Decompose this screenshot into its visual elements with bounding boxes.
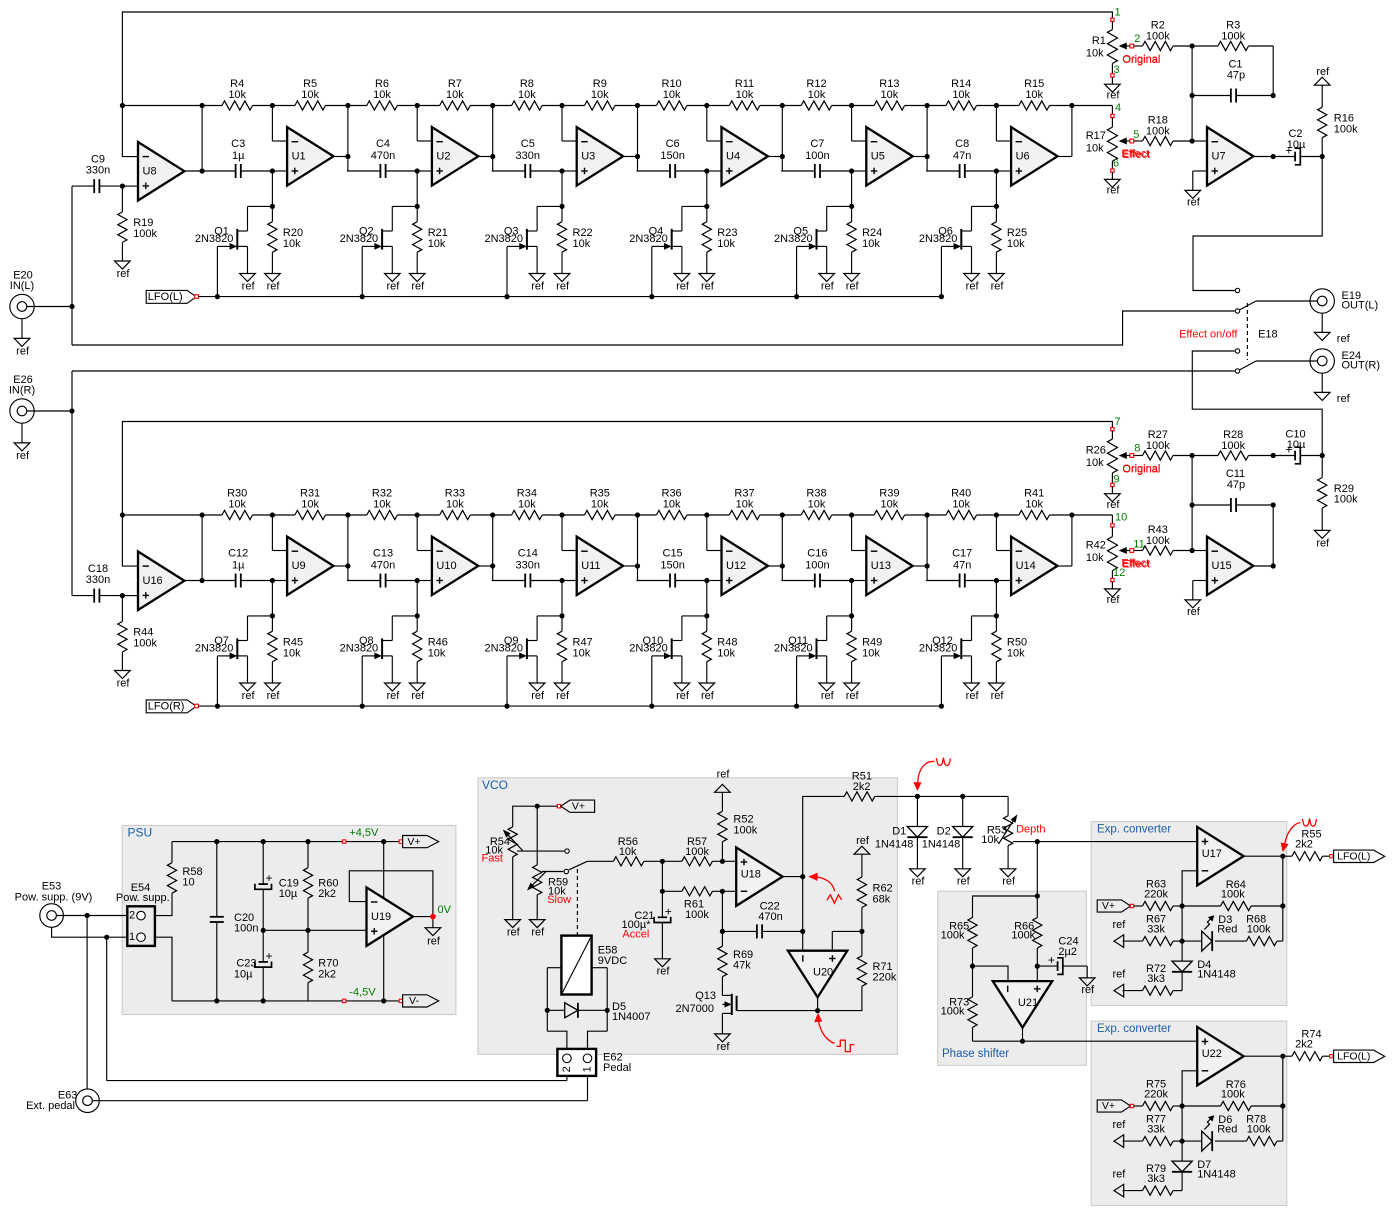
capacitor C15 150n xyxy=(637,580,671,582)
capacitor C5 330n xyxy=(492,170,526,172)
ground ref left xyxy=(1114,935,1124,948)
capacitor C4 470n xyxy=(347,170,381,172)
svg-text:100k: 100k xyxy=(1146,535,1170,547)
ground ref xyxy=(554,683,570,691)
wire xyxy=(592,967,608,969)
ground ref xyxy=(715,1034,731,1042)
svg-text:150n: 150n xyxy=(660,150,684,162)
svg-text:ref: ref xyxy=(846,280,860,292)
svg-text:2N3820: 2N3820 xyxy=(484,642,523,654)
switch Fast/Slow contact 1 xyxy=(565,849,569,853)
wire xyxy=(57,915,88,917)
resistor R31 10k xyxy=(272,514,295,516)
svg-text:10k: 10k xyxy=(428,647,446,659)
node xyxy=(660,859,665,864)
ground ref left xyxy=(1114,984,1124,997)
wire xyxy=(107,1080,567,1082)
capacitor C22 470n xyxy=(722,930,757,932)
svg-text:2µ2: 2µ2 xyxy=(1058,946,1077,958)
svg-text:100k: 100k xyxy=(1221,889,1245,901)
resistor R57 100k xyxy=(662,860,682,862)
section box Exp. converter 1 xyxy=(1091,822,1287,1006)
svg-text:1N4148: 1N4148 xyxy=(1197,1168,1236,1180)
svg-text:330n: 330n xyxy=(86,164,110,176)
diode D5 1N4007 xyxy=(547,1009,564,1011)
svg-text:2: 2 xyxy=(561,1066,573,1072)
diode D2 1N4148 xyxy=(962,796,964,826)
wire xyxy=(27,306,72,308)
wire xyxy=(155,937,172,1001)
svg-text:470n: 470n xyxy=(758,911,782,923)
svg-text:ref: ref xyxy=(1112,1169,1126,1181)
svg-text:+4,5V: +4,5V xyxy=(349,827,379,839)
svg-text:PSU: PSU xyxy=(128,825,153,839)
pin -4,5V xyxy=(342,999,345,1002)
svg-text:47n: 47n xyxy=(953,150,971,162)
svg-text:10k: 10k xyxy=(952,498,970,510)
resistor R8 10k xyxy=(492,105,512,107)
svg-text:2N3820: 2N3820 xyxy=(195,642,234,654)
svg-text:150n: 150n xyxy=(660,559,684,571)
svg-text:D2: D2 xyxy=(937,826,951,838)
svg-text:100k: 100k xyxy=(1146,125,1170,137)
node stage out xyxy=(635,563,640,568)
capacitor C7 100n xyxy=(781,170,815,172)
svg-text:R1: R1 xyxy=(1092,35,1106,47)
wire U17 minus xyxy=(1182,871,1197,906)
node Q xyxy=(994,204,999,209)
capacitor C23 10µ xyxy=(262,930,264,962)
op-amp U20 xyxy=(788,951,847,998)
node U20 out xyxy=(815,1008,820,1013)
wire U21 plus xyxy=(1036,966,1038,981)
resistor R2 100k xyxy=(1134,45,1143,47)
resistor R45 10k xyxy=(271,616,273,631)
svg-text:U3: U3 xyxy=(581,151,595,163)
wire xyxy=(996,580,1011,582)
svg-text:U21: U21 xyxy=(1018,997,1038,1009)
resistor R35 10k xyxy=(562,514,585,516)
node gate xyxy=(794,704,799,709)
svg-text:R26: R26 xyxy=(1086,445,1106,457)
potentiometer R26 10k Original xyxy=(1111,428,1114,431)
wire U20 minus xyxy=(802,931,804,950)
wire xyxy=(93,1100,588,1102)
ground ref left xyxy=(1114,1184,1124,1197)
svg-text:LFO(L): LFO(L) xyxy=(148,291,183,303)
net flag LFO(L) out 2 xyxy=(1330,1055,1333,1058)
resistor R12 10k xyxy=(781,105,801,107)
svg-text:10k: 10k xyxy=(736,498,754,510)
node Q xyxy=(704,613,709,618)
svg-text:6: 6 xyxy=(1113,157,1119,169)
svg-text:C11: C11 xyxy=(1226,468,1245,480)
resistor R69 47k xyxy=(718,946,727,977)
svg-text:U20: U20 xyxy=(813,967,833,979)
wire -4.5 rail xyxy=(172,1000,401,1002)
ground ref xyxy=(844,683,860,691)
svg-text:R42: R42 xyxy=(1086,540,1106,552)
wire xyxy=(107,936,128,938)
wire xyxy=(587,860,613,862)
node out xyxy=(1320,453,1325,458)
node U18 out xyxy=(800,874,805,879)
svg-text:U12: U12 xyxy=(726,560,746,572)
capacitor C21 100µ* xyxy=(661,891,663,917)
resistor R50 10k xyxy=(995,616,997,631)
svg-text:3k3: 3k3 xyxy=(1147,1173,1165,1185)
node xyxy=(1180,1103,1185,1108)
svg-text:Pow. supp. (9V): Pow. supp. (9V) xyxy=(15,891,93,903)
wire xyxy=(1256,300,1318,302)
wire xyxy=(417,580,432,582)
ground ref xyxy=(1314,530,1330,538)
svg-text:U15: U15 xyxy=(1212,560,1232,572)
wire xyxy=(661,861,663,891)
svg-text:3: 3 xyxy=(1114,64,1120,76)
capacitor C3 1µ xyxy=(202,170,236,172)
section box Exp. converter 2 xyxy=(1091,1021,1287,1206)
diode D7 1N4148 xyxy=(1181,1141,1183,1161)
svg-text:R17: R17 xyxy=(1086,130,1106,142)
resistor R23 10k xyxy=(706,206,708,221)
svg-text:ref: ref xyxy=(846,690,860,702)
svg-text:3k3: 3k3 xyxy=(1147,973,1165,985)
diode D4 1N4148 xyxy=(1181,941,1183,961)
wire xyxy=(851,515,853,551)
svg-text:2N3820: 2N3820 xyxy=(774,642,813,654)
svg-text:10µ: 10µ xyxy=(234,968,253,980)
op-amp U21 xyxy=(993,981,1052,1028)
svg-text:C12: C12 xyxy=(228,548,248,560)
svg-text:Ext. pedal: Ext. pedal xyxy=(26,1100,75,1112)
wire xyxy=(995,515,997,551)
op-amp U22 xyxy=(1197,1027,1243,1086)
svg-text:ref: ref xyxy=(701,280,715,292)
svg-text:U2: U2 xyxy=(436,151,450,163)
wire xyxy=(706,106,708,142)
svg-text:100k: 100k xyxy=(1221,440,1245,452)
svg-text:Effect: Effect xyxy=(1121,558,1149,570)
svg-text:8: 8 xyxy=(1134,443,1140,455)
svg-text:ref: ref xyxy=(507,927,521,939)
wire U19 power xyxy=(383,842,385,1001)
node xyxy=(1180,1139,1185,1144)
connector E62 Pedal xyxy=(557,1049,596,1076)
resistor R41 10k xyxy=(996,514,1019,516)
svg-text:10k: 10k xyxy=(1086,47,1104,59)
svg-text:ref: ref xyxy=(676,690,690,702)
wire xyxy=(851,581,853,616)
svg-text:100k: 100k xyxy=(1146,31,1170,43)
resistor R48 10k xyxy=(706,616,708,631)
node Q xyxy=(704,204,709,209)
wire xyxy=(768,156,782,158)
svg-text:ref: ref xyxy=(1107,185,1121,197)
node stage in xyxy=(994,578,999,583)
svg-text:U1: U1 xyxy=(292,151,306,163)
svg-text:10k: 10k xyxy=(1007,238,1025,250)
wire xyxy=(71,371,73,596)
node xyxy=(214,998,219,1003)
wire xyxy=(1244,855,1283,857)
resistor R79 3k3 xyxy=(1123,1190,1143,1192)
svg-text:V+: V+ xyxy=(572,800,585,812)
node xyxy=(214,839,219,844)
op-amp U13 xyxy=(866,537,912,596)
op-amp U6 xyxy=(1011,127,1057,186)
wire U21 minus xyxy=(973,966,1009,981)
svg-text:ref: ref xyxy=(411,280,425,292)
resistor R77 33k xyxy=(1123,1140,1143,1142)
wire xyxy=(1192,140,1207,142)
svg-text:9VDC: 9VDC xyxy=(598,955,627,967)
ground ref xyxy=(240,274,256,282)
wire xyxy=(706,581,708,616)
node input xyxy=(69,408,74,413)
ground ref xyxy=(1079,978,1095,986)
net flag V- PSU xyxy=(399,999,402,1002)
svg-text:1N4007: 1N4007 xyxy=(612,1011,651,1023)
capacitor C12 1µ xyxy=(202,580,236,582)
svg-text:ref: ref xyxy=(966,690,980,702)
svg-text:ref: ref xyxy=(1112,919,1126,931)
wire xyxy=(587,1076,589,1101)
net flag LFO(R) xyxy=(146,700,196,713)
wire xyxy=(1192,550,1207,552)
ground ref xyxy=(385,274,401,282)
node gate xyxy=(504,704,509,709)
resistor R49 10k xyxy=(851,616,853,631)
wire to exp2 xyxy=(1023,1040,1198,1042)
node stage in xyxy=(415,168,420,173)
node U21 out xyxy=(1020,1039,1025,1044)
resistor R10 10k xyxy=(637,105,657,107)
resistor R61 100k xyxy=(662,890,682,892)
resistor R9 10k xyxy=(562,105,585,107)
svg-text:ref: ref xyxy=(717,1041,731,1053)
node stage out xyxy=(490,563,495,568)
resistor R16 100k xyxy=(1321,85,1323,107)
node xyxy=(925,512,930,517)
connector E53 Pow. supp. (9V) xyxy=(40,904,64,928)
wire xyxy=(973,1040,1023,1042)
node xyxy=(1271,453,1276,458)
wire R53 wiper xyxy=(1013,841,1038,843)
wire xyxy=(1022,1028,1024,1042)
resistor R13 10k xyxy=(852,105,875,107)
svg-text:10k: 10k xyxy=(1025,89,1043,101)
net flag V+ exp2 xyxy=(1097,1100,1130,1112)
svg-text:Pow. supp.: Pow. supp. xyxy=(116,892,170,904)
node gate xyxy=(215,294,220,299)
svg-text:4: 4 xyxy=(1115,102,1121,114)
potentiometer R59 10k Slow xyxy=(533,865,542,895)
connector E63 Ext. pedal xyxy=(76,1089,100,1113)
wire +4.5 rail xyxy=(172,841,401,843)
resistor R34 10k xyxy=(492,514,512,516)
node xyxy=(720,859,725,864)
node xyxy=(635,103,640,108)
svg-text:33k: 33k xyxy=(1147,924,1165,936)
svg-text:+: + xyxy=(265,871,272,885)
resistor R67 33k xyxy=(1123,940,1143,942)
capacitor C10 10µ xyxy=(1273,455,1295,457)
annotation arrow at D1 junction xyxy=(918,761,935,783)
node xyxy=(849,103,854,108)
wire xyxy=(561,171,563,206)
node Q xyxy=(994,613,999,618)
op-amp U15 xyxy=(1207,537,1253,596)
svg-text:10k: 10k xyxy=(301,89,319,101)
svg-text:100k: 100k xyxy=(1247,1124,1271,1136)
resistor R28 100k xyxy=(1192,455,1218,457)
wire U19 feedback xyxy=(349,871,433,917)
ground ref xyxy=(1111,582,1113,589)
wire xyxy=(334,156,348,158)
resistor R78 100k xyxy=(1246,1137,1277,1146)
node ladder start xyxy=(120,103,125,108)
svg-text:2k2: 2k2 xyxy=(1295,1038,1313,1050)
svg-text:ref: ref xyxy=(676,280,690,292)
capacitor C11 47p xyxy=(1192,504,1231,506)
capacitor C24 2µ2 xyxy=(1037,965,1057,967)
ground ref xyxy=(409,683,425,691)
node gate xyxy=(215,704,220,709)
svg-text:2N3820: 2N3820 xyxy=(629,642,668,654)
svg-text:Q13: Q13 xyxy=(695,990,716,1002)
capacitor C6 150n xyxy=(637,170,671,172)
node gate xyxy=(649,294,654,299)
op-amp U10 xyxy=(432,537,478,596)
svg-text:10k: 10k xyxy=(619,846,637,858)
svg-text:10k: 10k xyxy=(1086,552,1104,564)
resistor R25 10k xyxy=(995,206,997,221)
wire xyxy=(721,891,723,946)
svg-text:ref: ref xyxy=(991,280,1005,292)
svg-text:Depth: Depth xyxy=(1016,824,1045,836)
net flag LFO(L) xyxy=(146,290,196,303)
resistor R19 100k xyxy=(121,186,123,212)
wire U22 minus xyxy=(1182,1071,1197,1106)
transistor Q3 2N3820 xyxy=(537,205,562,207)
svg-text:7: 7 xyxy=(1115,416,1121,428)
node xyxy=(345,512,350,517)
op-amp U8 xyxy=(138,142,184,201)
ground ref xyxy=(385,683,401,691)
svg-text:ref: ref xyxy=(856,835,870,847)
ground ref xyxy=(844,274,860,282)
wire xyxy=(706,515,708,551)
connector E24 OUT(R) xyxy=(1310,349,1334,373)
svg-text:ref: ref xyxy=(386,690,400,702)
ground ref xyxy=(1111,487,1113,494)
node Q xyxy=(849,204,854,209)
resistor R44 100k xyxy=(121,596,123,622)
wire bypass left xyxy=(72,311,1235,345)
svg-text:10k: 10k xyxy=(373,498,391,510)
svg-text:ref: ref xyxy=(427,936,441,948)
svg-text:1µ: 1µ xyxy=(232,150,245,162)
wire LFO(L) line xyxy=(198,296,941,298)
svg-text:10k: 10k xyxy=(283,238,301,250)
net flag LFO(L) out 1 xyxy=(1330,855,1333,858)
wire xyxy=(561,581,563,616)
wire xyxy=(1282,1056,1284,1106)
svg-text:220k: 220k xyxy=(1144,1089,1168,1101)
capacitor C9 330n xyxy=(72,185,94,187)
capacitor C1 47p xyxy=(1192,95,1231,97)
section box PSU xyxy=(122,825,456,1014)
node xyxy=(780,103,785,108)
svg-text:C17: C17 xyxy=(952,548,972,560)
resistor R72 3k3 xyxy=(1123,990,1143,992)
wire xyxy=(272,580,287,582)
svg-text:100k: 100k xyxy=(685,909,709,921)
svg-text:10k: 10k xyxy=(736,89,754,101)
node stage out xyxy=(345,154,350,159)
svg-text:10k: 10k xyxy=(446,89,464,101)
ground ref xyxy=(964,683,980,691)
node Q xyxy=(559,204,564,209)
svg-text:47k: 47k xyxy=(733,960,751,972)
lamp E58 9VDC xyxy=(561,936,591,995)
wire xyxy=(623,565,637,567)
node xyxy=(635,512,640,517)
svg-text:470n: 470n xyxy=(371,150,395,162)
svg-text:2k2: 2k2 xyxy=(318,888,336,900)
switch E18 contact R1 xyxy=(1235,349,1239,353)
svg-text:1: 1 xyxy=(582,1066,594,1072)
ground ref xyxy=(115,261,131,269)
node xyxy=(559,512,564,517)
ground ref xyxy=(989,683,1005,691)
ground ref xyxy=(989,274,1005,282)
node xyxy=(559,103,564,108)
op-amp U11 xyxy=(577,537,623,596)
wire to exp1 xyxy=(1037,841,1197,843)
svg-text:U19: U19 xyxy=(371,911,391,923)
wire xyxy=(995,106,997,142)
ground ref xyxy=(674,683,690,691)
wire xyxy=(416,581,418,616)
node xyxy=(1180,903,1185,908)
svg-text:U5: U5 xyxy=(871,151,885,163)
wire xyxy=(416,515,418,551)
capacitor C20 100n xyxy=(216,842,218,917)
resistor R51 2k2 xyxy=(844,792,875,801)
svg-text:ref: ref xyxy=(1107,90,1121,102)
wire xyxy=(973,896,1038,918)
node xyxy=(994,512,999,517)
svg-text:10µ: 10µ xyxy=(279,888,298,900)
wire xyxy=(86,916,88,1090)
node stage in xyxy=(704,578,709,583)
node stage in xyxy=(270,168,275,173)
svg-text:10k: 10k xyxy=(428,238,446,250)
potentiometer R17 10k Effect xyxy=(1111,114,1114,117)
svg-text:100k: 100k xyxy=(133,637,157,649)
svg-text:10k: 10k xyxy=(518,498,536,510)
node gate xyxy=(360,294,365,299)
svg-text:U17: U17 xyxy=(1202,848,1222,860)
wire xyxy=(996,170,1011,172)
switch E18 blade R xyxy=(1240,361,1256,370)
node xyxy=(270,103,275,108)
wire R54 wiper xyxy=(517,850,564,852)
wire xyxy=(803,796,845,876)
transistor Q6 2N3820 xyxy=(972,205,997,207)
